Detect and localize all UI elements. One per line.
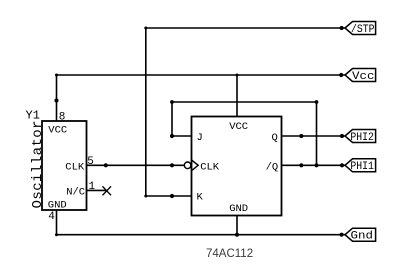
flip-flop CLK inversion bubble [184, 162, 191, 169]
connector flag Vcc [345, 69, 376, 83]
wire flip-flop VCC pin vertical [236, 75, 238, 117]
junction dot CLK wire at flip-flop pin end [170, 163, 174, 167]
junction dot flip-flop GND on bottom wire [235, 233, 239, 237]
svg-text:CLK: CLK [200, 162, 220, 174]
junction dot at /STP flag [340, 26, 344, 30]
junction dot at Gnd flag [340, 233, 344, 237]
wire J pin loop to /Q [172, 102, 317, 165]
wire flip-flop GND pin vertical [236, 216, 238, 235]
svg-text:Vcc: Vcc [352, 71, 375, 83]
svg-text:1: 1 [89, 181, 96, 193]
svg-text:/Q: /Q [266, 162, 279, 174]
junction dot at Vcc flag [339, 73, 343, 77]
junction dot at PHI2 flag [340, 134, 344, 138]
svg-text:N/C: N/C [66, 187, 85, 199]
corner dot ground corner [55, 233, 58, 236]
svg-text:/STP: /STP [351, 24, 375, 36]
wire K pin to /STP net [146, 195, 192, 197]
svg-text:VCC: VCC [48, 124, 67, 136]
corner dot /STP top-left [144, 27, 147, 30]
wire /STP net vertical [145, 28, 147, 196]
svg-text:Oscillator: Oscillator [30, 120, 46, 209]
junction dot at PHI1 flag [340, 163, 344, 167]
corner dot Vcc corner [55, 74, 58, 77]
corner dot K wire corner [144, 195, 147, 198]
svg-text:5: 5 [87, 156, 94, 168]
svg-text:PHI2: PHI2 [350, 132, 374, 144]
svg-text:CLK: CLK [65, 162, 85, 174]
no-connect X on pin 1 [103, 186, 112, 195]
wire CLK oscillator pin 5 to flip-flop CLK [87, 164, 185, 166]
junction dot J loop top-right corner [315, 100, 319, 104]
flip-flop U1 74AC112 body [192, 117, 282, 216]
svg-text:4: 4 [48, 211, 55, 223]
svg-text:Q: Q [272, 132, 278, 144]
flip-flop CLK edge wedge [192, 160, 199, 171]
svg-text:J: J [197, 132, 203, 144]
wire Vcc net horizontal [57, 74, 346, 76]
svg-text:K: K [197, 191, 204, 203]
wire ground net: oscillator pin 4 down and bottom run to Gnd [57, 210, 346, 235]
wire /Q output to PHI1 [282, 164, 346, 166]
junction dot K wire [170, 194, 174, 198]
wire N/C pin 1 stub [87, 189, 107, 191]
junction dot J loop top-left corner [170, 100, 174, 104]
connector flag PHI2 [345, 130, 376, 144]
svg-text:VCC: VCC [229, 121, 248, 133]
junction dot CLK wire at oscillator pin end [104, 163, 108, 167]
svg-text:Gnd: Gnd [351, 231, 374, 243]
svg-text:GND: GND [48, 199, 67, 211]
svg-text:GND: GND [229, 203, 248, 215]
svg-text:74AC112: 74AC112 [206, 248, 253, 260]
junction dot Q wire [299, 134, 303, 138]
junction dot J loop onto /Q wire [314, 163, 318, 167]
connector flag Gnd [345, 228, 376, 242]
junction dot flip-flop VCC tap [236, 74, 239, 77]
junction dot J wire corner [170, 134, 174, 138]
wire /STP net horizontal top [146, 27, 345, 29]
svg-text:PHI1: PHI1 [350, 161, 374, 173]
junction dot /Q wire [299, 163, 303, 167]
svg-text:8: 8 [59, 111, 66, 123]
wire Q output to PHI2 [282, 135, 346, 137]
junction dot on pin 8 wire [54, 98, 58, 102]
oscillator Y1 body [42, 121, 87, 210]
wire oscillator VCC pin 8 vertical [56, 75, 58, 121]
connector flag /STP [345, 22, 376, 36]
connector flag PHI1 [345, 159, 376, 173]
